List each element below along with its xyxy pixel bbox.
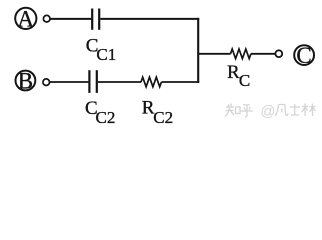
label RC bbox=[227, 62, 250, 90]
wire bbox=[100, 18, 199, 20]
凡 bbox=[275, 105, 288, 117]
capacitor CC1 bbox=[92, 9, 99, 30]
svg-text:@: @ bbox=[260, 103, 275, 120]
resistor RC bbox=[231, 49, 251, 59]
wire (vertical bus) bbox=[197, 18, 199, 83]
watermark 知乎 @凡士林 bbox=[225, 103, 316, 120]
resistor RC2 bbox=[141, 77, 161, 87]
svg-text:C: C bbox=[296, 43, 311, 68]
wire (middle branch) bbox=[198, 53, 231, 55]
wire bbox=[50, 18, 91, 20]
capacitor CC2 bbox=[89, 70, 96, 93]
terminal A bbox=[43, 15, 50, 22]
svg-text:C2: C2 bbox=[153, 108, 173, 127]
label RC2 bbox=[142, 97, 173, 127]
wire bbox=[98, 81, 141, 83]
知 bbox=[225, 104, 234, 117]
wire bbox=[50, 81, 89, 83]
node A bbox=[15, 6, 36, 31]
node C bbox=[294, 43, 314, 68]
乎 bbox=[241, 105, 254, 118]
svg-text:C1: C1 bbox=[96, 45, 116, 64]
svg-text:A: A bbox=[17, 6, 34, 31]
label CC2 bbox=[85, 98, 115, 127]
terminal C bbox=[275, 50, 282, 57]
士 bbox=[290, 104, 301, 115]
wire bbox=[161, 81, 199, 83]
node B bbox=[16, 68, 36, 93]
wire bbox=[251, 53, 276, 55]
terminal B bbox=[43, 79, 50, 86]
svg-text:C2: C2 bbox=[96, 108, 116, 127]
林 bbox=[302, 104, 316, 117]
svg-text:B: B bbox=[18, 68, 33, 93]
label CC1 bbox=[86, 36, 116, 64]
svg-text:C: C bbox=[239, 71, 250, 90]
